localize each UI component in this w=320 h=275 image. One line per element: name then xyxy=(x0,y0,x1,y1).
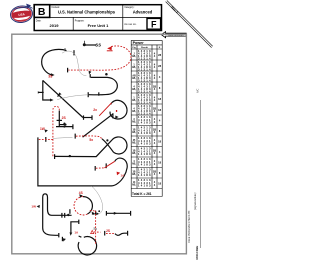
svg-text:AB,: AB, xyxy=(132,163,136,166)
black arrowheads xyxy=(37,71,119,242)
svg-text:AB,: AB, xyxy=(132,152,136,155)
power table row 13 xyxy=(132,178,162,188)
hook 2S element xyxy=(104,231,106,236)
bottom circle element xyxy=(78,237,96,255)
power table row 10 xyxy=(132,147,161,157)
svg-text:3S: 3S xyxy=(48,75,53,79)
bottom line with cap xyxy=(106,212,130,214)
red element labels xyxy=(31,75,125,235)
power table row 4 xyxy=(132,82,161,94)
power table row 6 xyxy=(132,104,162,116)
svg-text:AB,: AB, xyxy=(132,77,136,80)
P loop element xyxy=(43,194,72,228)
svg-text:5x: 5x xyxy=(89,138,93,142)
svg-text:1 4 1 8 3: 1 4 1 8 3 xyxy=(138,131,151,135)
rink frame xyxy=(12,34,187,254)
power table row 5 xyxy=(132,93,162,105)
svg-text:1W: 1W xyxy=(40,127,45,131)
hook curve element 1 xyxy=(42,49,67,74)
svg-text:Sq: Sq xyxy=(93,227,97,231)
svg-text:1 4 1 8 3: 1 4 1 8 3 xyxy=(138,142,151,146)
red solid connector lines xyxy=(99,51,115,168)
signature line xyxy=(199,100,201,248)
S-curve into red oval xyxy=(73,50,75,55)
power table row 7 xyxy=(132,115,161,125)
short line with end cap xyxy=(56,126,73,128)
svg-text:AB,: AB, xyxy=(132,131,136,134)
svg-text:AB,: AB, xyxy=(132,142,136,145)
figure eight element xyxy=(74,134,76,139)
tick on red dashed connector xyxy=(45,137,47,142)
svg-text:AB: AB xyxy=(132,74,136,77)
element line with left arrow and loop return xyxy=(89,74,91,78)
svg-text:Result: Result xyxy=(141,46,148,49)
svg-text:A/C: A/C xyxy=(196,89,200,93)
power table row 12 xyxy=(132,168,161,178)
svg-text:AB,: AB, xyxy=(132,88,136,91)
svg-text:Advanced: Advanced xyxy=(133,10,153,15)
thin connecting lines xyxy=(53,51,103,214)
svg-text:Power: Power xyxy=(133,41,145,45)
power table row 3 xyxy=(132,71,161,83)
power table row 1 xyxy=(132,49,162,61)
svg-text:2S: 2S xyxy=(106,229,110,233)
svg-text:AB,: AB, xyxy=(132,110,136,113)
svg-text:AB,: AB, xyxy=(132,184,136,187)
svg-text:1 4 1 8 3: 1 4 1 8 3 xyxy=(138,121,151,125)
svg-text:ss: ss xyxy=(95,43,101,49)
B box xyxy=(34,5,50,18)
corner diagonal double line xyxy=(166,1,213,48)
red dashed connectors xyxy=(39,46,131,244)
svg-text:AB,: AB, xyxy=(132,66,136,69)
svg-text:Program:: Program: xyxy=(75,20,85,23)
black dots xyxy=(63,43,108,216)
power table row 8 xyxy=(132,126,161,136)
svg-text:1 4 1 8 3: 1 4 1 8 3 xyxy=(138,152,151,156)
staircase element xyxy=(71,222,79,234)
svg-text:a: a xyxy=(64,47,66,51)
red triangle outline marker xyxy=(91,230,94,233)
svg-text:AB,: AB, xyxy=(132,121,136,124)
svg-text:2x: 2x xyxy=(93,108,97,112)
skate direction arrow xyxy=(161,32,186,38)
power table row 2 xyxy=(132,60,162,72)
svg-text:PROGR FR:: PROGR FR: xyxy=(124,24,137,26)
svg-text:3 1 3 1 4: 3 1 3 1 4 xyxy=(138,112,151,116)
svg-text:U.S. National Championships: U.S. National Championships xyxy=(58,10,116,15)
start element line xyxy=(84,44,96,46)
svg-text:4S: 4S xyxy=(79,191,83,195)
power table grid xyxy=(131,40,162,196)
hairpin black vertical xyxy=(58,111,60,127)
svg-text:2019: 2019 xyxy=(50,23,60,28)
svg-text:F: F xyxy=(151,20,157,30)
svg-text:Total K = 261: Total K = 261 xyxy=(132,192,152,196)
svg-text:AB,: AB, xyxy=(132,173,136,176)
svg-text:B: B xyxy=(38,6,46,18)
svg-text:(signature/date): (signature/date) xyxy=(194,192,197,210)
spiral hook element xyxy=(94,166,96,171)
svg-text:AB,: AB, xyxy=(132,55,136,58)
triangle element xyxy=(43,80,51,100)
svg-text:1 4 1 8 3: 1 4 1 8 3 xyxy=(138,184,151,188)
red wedge markers xyxy=(107,46,120,175)
svg-text:Date:: Date: xyxy=(36,20,42,23)
F box xyxy=(147,18,161,29)
svg-text:2S: 2S xyxy=(62,116,67,120)
svg-text:1 4 1 8 3: 1 4 1 8 3 xyxy=(138,163,151,167)
power table row 11 xyxy=(132,157,162,167)
upper loop element xyxy=(110,100,127,119)
svg-text:MOD.FREE: MOD.FREE xyxy=(195,246,199,260)
svg-text:1W: 1W xyxy=(31,204,36,208)
power table row 9 xyxy=(132,136,162,146)
federation logo badge xyxy=(10,5,34,24)
svg-text:AB,: AB, xyxy=(132,99,136,102)
header table outer border xyxy=(34,5,161,31)
svg-text:1 4 1 8 3: 1 4 1 8 3 xyxy=(138,173,151,177)
svg-text:Free Unit 1: Free Unit 1 xyxy=(88,23,109,28)
svg-text:FREE PROGRAM CHECK BY:: FREE PROGRAM CHECK BY: xyxy=(188,210,191,243)
header grid lines xyxy=(34,5,161,31)
circle element black arc xyxy=(83,197,92,214)
